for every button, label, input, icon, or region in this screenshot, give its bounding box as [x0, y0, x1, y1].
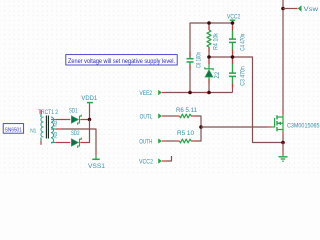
svg-text:N2: N2 [53, 120, 58, 127]
svg-text:SD1: SD1 [69, 107, 78, 114]
svg-text:OUTH: OUTH [139, 139, 152, 146]
svg-text:TRCT1 2: TRCT1 2 [38, 109, 58, 116]
svg-text:C3 470n: C3 470n [239, 66, 246, 86]
svg-text:Zener voltage will set negativ: Zener voltage will set negative supply l… [68, 58, 175, 65]
svg-text:VCC2: VCC2 [227, 13, 241, 20]
svg-text:Z2: Z2 [214, 72, 221, 79]
svg-text:OUTL: OUTL [140, 114, 153, 121]
svg-text:N1: N1 [30, 128, 36, 134]
svg-text:SD2: SD2 [71, 130, 80, 137]
svg-text:N3: N3 [53, 131, 58, 138]
svg-text:VDD1: VDD1 [81, 95, 97, 102]
svg-text:VEE2: VEE2 [139, 90, 152, 97]
svg-text:VCC2: VCC2 [139, 159, 153, 166]
svg-text:C4 470n: C4 470n [240, 34, 247, 51]
svg-text:R5 10: R5 10 [177, 130, 195, 137]
svg-text:C3M0015065: C3M0015065 [287, 123, 320, 130]
svg-text:SN6501: SN6501 [5, 127, 22, 133]
svg-text:R6 5.11: R6 5.11 [176, 107, 198, 114]
svg-text:C8 100n: C8 100n [196, 52, 203, 68]
svg-text:R4 10k: R4 10k [212, 32, 219, 50]
svg-text:Vsw: Vsw [304, 6, 319, 13]
svg-text:VSS1: VSS1 [88, 163, 105, 170]
